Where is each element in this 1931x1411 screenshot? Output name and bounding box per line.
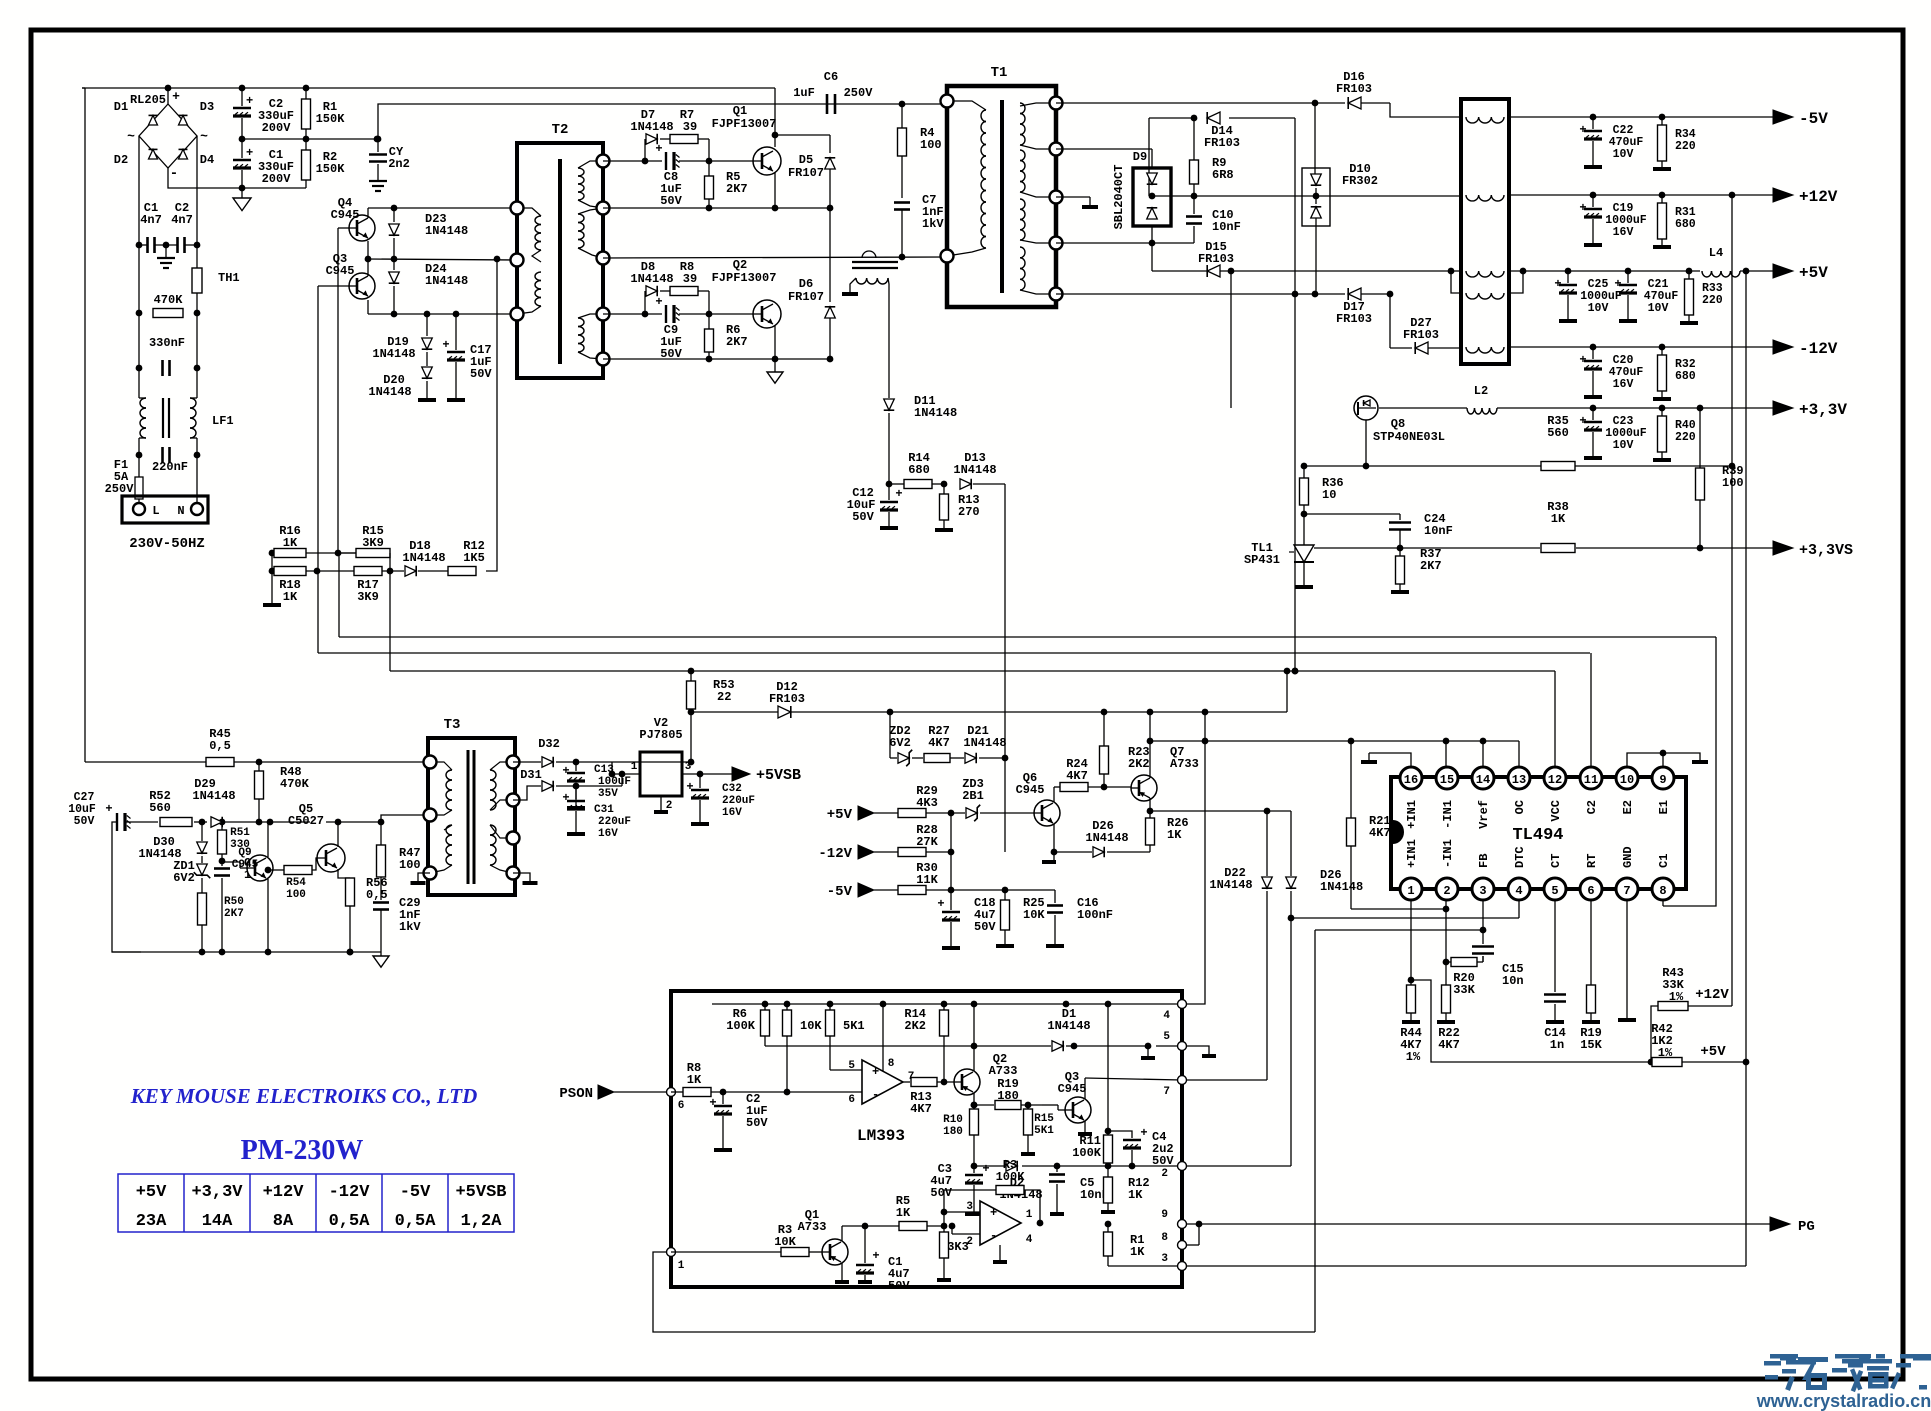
svg-text:10: 10 bbox=[1322, 488, 1336, 502]
svg-text:100K: 100K bbox=[1072, 1146, 1102, 1160]
resistor R20 33K bbox=[1446, 956, 1483, 997]
label 230V-50HZ bbox=[129, 536, 205, 552]
svg-text:4K7: 4K7 bbox=[1369, 826, 1391, 840]
wire pin16 ground bbox=[1361, 753, 1411, 767]
svg-text:11: 11 bbox=[1584, 773, 1598, 787]
svg-text:FR107: FR107 bbox=[788, 290, 824, 304]
wire y822 line bbox=[125, 815, 424, 825]
resistor R2 150K bbox=[302, 139, 346, 188]
svg-text:0,5: 0,5 bbox=[366, 888, 388, 902]
diode D15 FR103 bbox=[1198, 240, 1234, 277]
svg-text:FB: FB bbox=[1477, 854, 1491, 868]
svg-text:10V: 10V bbox=[1613, 439, 1634, 452]
svg-text:330nF: 330nF bbox=[149, 336, 185, 350]
ground below aux winding bbox=[842, 292, 858, 296]
diode D7 1N4148 bbox=[630, 108, 673, 161]
inductor output choke L1 bbox=[1461, 99, 1509, 364]
wire op1 plus input bbox=[830, 1069, 862, 1071]
svg-text:1kV: 1kV bbox=[922, 217, 944, 231]
svg-text:+5VSB: +5VSB bbox=[455, 1183, 506, 1202]
svg-text:50V: 50V bbox=[974, 920, 996, 934]
svg-text:C32: C32 bbox=[722, 783, 742, 795]
TL494 pin 10 bbox=[1616, 767, 1638, 789]
T1 pin3 ground stub bbox=[1056, 197, 1098, 207]
svg-text:4n7: 4n7 bbox=[140, 213, 162, 227]
wire x1152 SBL column bbox=[1149, 149, 1156, 271]
T1 pin left bottom bbox=[941, 250, 954, 263]
TL494 pin 3 bbox=[1472, 878, 1494, 900]
svg-text:+IN1: +IN1 bbox=[1405, 839, 1419, 868]
TL494 pin 13 bbox=[1508, 767, 1530, 789]
wire bus637 to pin8 bbox=[1663, 637, 1716, 906]
svg-text:11K: 11K bbox=[916, 873, 938, 887]
svg-text:D4: D4 bbox=[200, 153, 214, 167]
op-amp U1B LM393 bbox=[966, 1201, 1032, 1248]
wire Q7 emitter to y811 bbox=[1147, 798, 1154, 814]
wire Q3 collector to pin7 bbox=[1085, 1078, 1182, 1099]
svg-text:680: 680 bbox=[1675, 370, 1696, 383]
TL494 pin 15 bbox=[1436, 767, 1458, 789]
fuse F1 5A 250V bbox=[105, 458, 143, 499]
svg-text:Vref: Vref bbox=[1477, 800, 1491, 829]
svg-text:220: 220 bbox=[1702, 294, 1723, 307]
svg-text:VCC: VCC bbox=[1549, 800, 1563, 822]
resistor R54 100 bbox=[268, 858, 318, 901]
svg-text:4: 4 bbox=[1515, 884, 1522, 898]
resistor R29 4K3 bbox=[898, 784, 965, 818]
diode D20 1N4148 bbox=[368, 367, 432, 399]
svg-text:1%: 1% bbox=[1406, 1050, 1421, 1064]
svg-text:2K2: 2K2 bbox=[1128, 757, 1150, 771]
svg-text:Q9: Q9 bbox=[238, 847, 251, 859]
inductor L2 bbox=[1467, 384, 1497, 414]
TL494 pin 2 name -IN1 bbox=[1441, 839, 1455, 868]
resistor R33 220 bbox=[1680, 268, 1723, 323]
svg-text:KEY MOUSE ELECTROIKS CO., LTD: KEY MOUSE ELECTROIKS CO., LTD bbox=[130, 1084, 478, 1108]
bridge rectifier RL205 bbox=[127, 89, 208, 182]
svg-text:150K: 150K bbox=[316, 112, 346, 126]
wire C13 node to V2 input bbox=[609, 762, 640, 777]
resistor R10 180 bbox=[943, 1102, 978, 1170]
wire hop bbox=[862, 251, 876, 258]
resistor R11 100K bbox=[1072, 1004, 1112, 1166]
label +5V at R42 bbox=[1700, 1044, 1726, 1060]
svg-text:4: 4 bbox=[1163, 1010, 1170, 1022]
svg-text:16: 16 bbox=[1404, 773, 1418, 787]
capacitor C22 470uF 10V bbox=[1579, 114, 1643, 167]
svg-text:35V: 35V bbox=[598, 788, 618, 800]
capacitor C1 4n7 bbox=[139, 201, 162, 253]
TL494 pin 7 bbox=[1616, 878, 1638, 900]
wire FB to LM393 pin2 bbox=[1315, 930, 1483, 1332]
transistor Q1 FJPF13007 bbox=[712, 104, 781, 175]
capacitor C13 100uF 35V bbox=[562, 762, 631, 808]
svg-text:T1: T1 bbox=[991, 65, 1008, 81]
svg-text:50V: 50V bbox=[660, 194, 682, 208]
LM393 left pin 1 bbox=[667, 1248, 685, 1273]
svg-text:+: + bbox=[1579, 414, 1586, 428]
svg-text:560: 560 bbox=[149, 801, 171, 815]
svg-text:1N4148: 1N4148 bbox=[630, 120, 673, 134]
TL494 pin 8 name C1 bbox=[1657, 854, 1671, 868]
svg-text:D2: D2 bbox=[114, 153, 128, 167]
svg-text:L4: L4 bbox=[1709, 246, 1723, 260]
resistor R3 10K bbox=[671, 1223, 822, 1257]
svg-text:50V: 50V bbox=[470, 367, 492, 381]
transistor Q6 C945 bbox=[1016, 771, 1060, 826]
resistor R42 1K2 1% bbox=[1651, 1022, 1746, 1067]
wire op1 supply stub bbox=[880, 1001, 887, 1071]
capacitor C8 1uF 50V bbox=[655, 142, 682, 208]
resistor R56 0,5 bbox=[346, 876, 388, 955]
T1 pin right 2 bbox=[1050, 143, 1063, 156]
wire pin2 to D26 bbox=[1187, 1165, 1291, 1167]
svg-text:6V2: 6V2 bbox=[889, 736, 911, 750]
wire aux to D11 bbox=[888, 300, 890, 398]
wire bridge minus to bottom rail bbox=[168, 168, 306, 191]
svg-text:1N4148: 1N4148 bbox=[192, 789, 235, 803]
svg-text:A733: A733 bbox=[989, 1064, 1018, 1078]
svg-text:16V: 16V bbox=[1613, 378, 1634, 391]
T2 pin right 2 bbox=[597, 202, 610, 215]
svg-text:680: 680 bbox=[1675, 218, 1696, 231]
capacitor C3 4u7 50V bbox=[930, 1162, 989, 1214]
resistor R15 5K1 bbox=[1021, 1105, 1054, 1154]
wire Q3 base bbox=[318, 286, 349, 571]
resistor R5 1K bbox=[842, 1194, 947, 1231]
resistor R9 6R8 bbox=[1190, 115, 1234, 196]
resistor R14 680 bbox=[889, 451, 944, 489]
diode D4 label bbox=[200, 153, 214, 167]
svg-text:220: 220 bbox=[1675, 431, 1696, 444]
resistor R51 330 bbox=[218, 822, 251, 864]
diode D13 1N4148 bbox=[953, 451, 1005, 489]
wire y909 R21 to pin2 bbox=[1351, 906, 1449, 913]
wire Q6 collector to R24 bbox=[1054, 787, 1060, 802]
diode D14 FR103 bbox=[1204, 112, 1240, 150]
inductor L4 bbox=[1702, 246, 1740, 277]
svg-text:RL205: RL205 bbox=[130, 93, 166, 107]
wire ZD2 row y758 bbox=[890, 712, 897, 758]
wire Q1 base line y161 bbox=[603, 158, 753, 165]
wire R1 to pin3 row bbox=[1108, 1265, 1182, 1267]
svg-text:+: + bbox=[982, 1162, 989, 1176]
svg-text:2: 2 bbox=[1443, 884, 1450, 898]
T3 pin left 1 bbox=[424, 756, 437, 769]
svg-text:230V-50HZ: 230V-50HZ bbox=[129, 536, 205, 552]
wire +12V rail bbox=[1509, 192, 1773, 199]
wire R15 right to y571 bbox=[389, 553, 391, 571]
LM393 pin 9 bbox=[1161, 1209, 1186, 1229]
TL494 pin 14 bbox=[1472, 767, 1494, 789]
capacitor C32 220uF 16V bbox=[686, 774, 755, 824]
svg-text:1N4148: 1N4148 bbox=[1209, 878, 1252, 892]
LM393 pin 5 bbox=[1163, 1031, 1186, 1051]
ground below C1 bbox=[233, 188, 251, 211]
svg-text:1K: 1K bbox=[1167, 828, 1182, 842]
svg-text:50V: 50V bbox=[1152, 1154, 1174, 1168]
resistor R12 1K5 bbox=[448, 539, 485, 576]
resistor 10K bbox=[783, 1004, 823, 1092]
svg-text:6V2: 6V2 bbox=[173, 871, 195, 885]
T3 pin right 4 bbox=[507, 867, 520, 880]
wire R5 node to op2 bbox=[943, 1212, 945, 1226]
zener ZD2 6V2 bbox=[889, 724, 923, 766]
svg-text:16V: 16V bbox=[598, 828, 618, 840]
capacitor C6 bbox=[793, 70, 873, 114]
svg-text:180: 180 bbox=[997, 1089, 1019, 1103]
svg-text:C945: C945 bbox=[1016, 783, 1045, 797]
T1 pin right 5 bbox=[1050, 288, 1063, 301]
svg-text:220nF: 220nF bbox=[152, 460, 188, 474]
svg-text:+: + bbox=[686, 780, 693, 794]
TL494 pin 10 name E2 bbox=[1621, 800, 1635, 814]
svg-text:33K: 33K bbox=[1453, 983, 1475, 997]
diode D1 label bbox=[114, 100, 128, 114]
T2 pin right 4 bbox=[597, 308, 610, 321]
wire Q1 collector to D5 bbox=[775, 134, 830, 136]
resistor R1 1K bbox=[1104, 1221, 1146, 1266]
wire mid rail C1-C2 junction bbox=[239, 136, 381, 143]
wire y811 row bbox=[1150, 808, 1291, 815]
diode D26 1N4148 (right) bbox=[1286, 811, 1363, 1166]
TL494 pin 3 name FB bbox=[1477, 854, 1491, 868]
svg-text:50V: 50V bbox=[930, 1186, 952, 1200]
wire y762 to T3 bbox=[85, 759, 424, 766]
svg-text:10K: 10K bbox=[774, 1235, 796, 1249]
TL494 pin 9 name E1 bbox=[1657, 800, 1671, 814]
svg-text:16V: 16V bbox=[1613, 226, 1634, 239]
ground below R37 bbox=[1391, 590, 1409, 594]
wire Q2 base line y314 bbox=[603, 311, 753, 318]
capacitor C16 100nF bbox=[1046, 890, 1113, 946]
TL494 pin 12 name VCC bbox=[1549, 800, 1563, 822]
wire bus y671 bbox=[390, 571, 1555, 674]
resistor R3 100K feedback bbox=[944, 1158, 1043, 1226]
svg-text:1kV: 1kV bbox=[399, 920, 421, 934]
svg-text:3K9: 3K9 bbox=[362, 536, 384, 550]
svg-text:7: 7 bbox=[1163, 1086, 1170, 1098]
transformer T2 bbox=[517, 122, 603, 378]
wire C24 branch bbox=[1304, 514, 1400, 520]
svg-text:+5V: +5V bbox=[827, 807, 853, 823]
wire R35 line y466 bbox=[1301, 420, 1736, 469]
diode D8 1N4148 bbox=[630, 260, 673, 314]
wire pin1 to +5V divider bbox=[1411, 980, 1654, 1065]
svg-text:2: 2 bbox=[1161, 1168, 1168, 1180]
svg-text:200V: 200V bbox=[262, 172, 292, 186]
shunt regulator TL1 SP431 bbox=[1244, 541, 1314, 585]
svg-text:FR302: FR302 bbox=[1342, 174, 1378, 188]
resistor R14 2K2 bbox=[904, 1004, 948, 1082]
wire pin3 to +5V feed bbox=[1187, 1265, 1746, 1267]
svg-text:3: 3 bbox=[1161, 1253, 1168, 1265]
svg-text:C31: C31 bbox=[594, 804, 614, 816]
resistor 5K1 bbox=[826, 1004, 865, 1070]
svg-text:+: + bbox=[655, 142, 662, 156]
capacitor C31 220uF 16V bbox=[562, 786, 631, 840]
capacitor C4 2u2 50V bbox=[1108, 1126, 1174, 1168]
T3 right ground bbox=[513, 873, 538, 883]
svg-text:100K: 100K bbox=[996, 1170, 1026, 1184]
wire -12V rail bbox=[1509, 346, 1773, 348]
svg-text:100nF: 100nF bbox=[1077, 908, 1113, 922]
output arrow -12V bbox=[1773, 340, 1838, 358]
output arrow +5V bbox=[1773, 264, 1828, 282]
svg-text:1N4148: 1N4148 bbox=[402, 551, 445, 565]
diode D1 1N4148 bbox=[765, 1007, 1091, 1051]
svg-text:10K: 10K bbox=[800, 1019, 822, 1033]
diode D17 FR103 bbox=[1336, 288, 1390, 326]
resistor R31 680 bbox=[1653, 192, 1696, 247]
svg-text:OC: OC bbox=[1513, 800, 1527, 814]
resistor R5 2K7 bbox=[705, 161, 748, 208]
svg-text:1uF: 1uF bbox=[793, 86, 815, 100]
capacitor C21 470uF 10V bbox=[1614, 268, 1678, 321]
svg-text:0,5A: 0,5A bbox=[329, 1212, 371, 1231]
transistor Q2 A733 bbox=[954, 1052, 1017, 1095]
svg-text:C6: C6 bbox=[824, 70, 838, 84]
resistor R36 10 bbox=[1300, 466, 1344, 545]
capacitor C17 1uF 50V bbox=[442, 314, 492, 398]
wire +5V rail bbox=[1509, 268, 1773, 275]
svg-text:A733: A733 bbox=[1170, 757, 1199, 771]
svg-text:1K: 1K bbox=[1130, 1245, 1145, 1259]
TL494 pin 6 bbox=[1580, 878, 1602, 900]
resistor R19 15K bbox=[1580, 900, 1602, 1052]
wire pin8 join pin9 bbox=[1187, 1224, 1199, 1245]
wire R12 to T2 feedback bbox=[486, 256, 500, 571]
diode D6 FR107 bbox=[788, 208, 835, 359]
svg-text:D6: D6 bbox=[799, 277, 813, 291]
transistor Q5 C5027 bbox=[288, 802, 345, 872]
capacitor C27 10uF 50V bbox=[68, 791, 130, 831]
capacitor C7 1nF 1kV bbox=[894, 193, 944, 257]
thermistor TH1 bbox=[192, 268, 240, 293]
T1 pin left top bbox=[941, 95, 954, 108]
TL494 pin 5 bbox=[1544, 878, 1566, 900]
IC LM393 comparator box bbox=[671, 991, 1182, 1287]
LM393 pin 7 bbox=[1163, 1076, 1186, 1099]
wire pins 9 10 ground bbox=[1627, 750, 1708, 767]
svg-text:+: + bbox=[872, 1065, 879, 1079]
wire Q5 leads bbox=[338, 822, 350, 878]
wire op2 minus input bbox=[949, 1223, 980, 1234]
wire x951 sense join bbox=[948, 813, 955, 890]
capacitor C28 10nF bbox=[214, 856, 273, 952]
aux winding near T1 bbox=[850, 262, 898, 300]
svg-text:14: 14 bbox=[1476, 773, 1490, 787]
capacitor C15 10n bbox=[1472, 930, 1524, 988]
T3 pin right 2 bbox=[507, 794, 520, 807]
svg-text:-12V: -12V bbox=[818, 846, 852, 862]
svg-text:4K7: 4K7 bbox=[910, 1102, 932, 1116]
LM393 pin 3 bbox=[1161, 1253, 1186, 1271]
svg-text:CT: CT bbox=[1549, 854, 1563, 868]
resistor R38 1K bbox=[1541, 500, 1575, 553]
wire C27 left down bbox=[112, 822, 141, 952]
svg-text:39: 39 bbox=[683, 272, 697, 286]
wire x85 primary feed bbox=[82, 88, 85, 762]
svg-text:+: + bbox=[442, 338, 449, 352]
wire +5V winding pair jog bbox=[1509, 268, 1526, 293]
svg-text:7: 7 bbox=[1623, 884, 1630, 898]
svg-text:2B1: 2B1 bbox=[962, 789, 984, 803]
TL494 pin 13 name OC bbox=[1513, 800, 1527, 814]
capacitor C1 330uF 200V bbox=[233, 139, 294, 188]
capacitor C20 470uF 16V bbox=[1579, 344, 1643, 397]
svg-text:270: 270 bbox=[958, 505, 980, 519]
wire pin1 column bbox=[1408, 900, 1415, 985]
svg-text:R10: R10 bbox=[943, 1114, 963, 1126]
svg-text:1N4148: 1N4148 bbox=[1085, 831, 1128, 845]
svg-text:-: - bbox=[170, 166, 178, 182]
wire top bus y1004 bbox=[712, 1001, 1182, 1008]
wire R53 column to T3 line bbox=[688, 712, 695, 765]
wire y359 bottom line bbox=[603, 356, 833, 363]
svg-text:D1: D1 bbox=[114, 100, 128, 114]
svg-text:23A: 23A bbox=[136, 1212, 167, 1231]
svg-text:6: 6 bbox=[1587, 884, 1594, 898]
svg-text:4K7: 4K7 bbox=[1066, 769, 1088, 783]
diode D27 FR103 bbox=[1390, 294, 1461, 354]
svg-text:FR103: FR103 bbox=[1336, 82, 1372, 96]
svg-text:STP40NE03L: STP40NE03L bbox=[1373, 430, 1445, 444]
resistor R27 4K7 bbox=[924, 724, 964, 763]
svg-text:1N4148: 1N4148 bbox=[425, 224, 468, 238]
svg-text:-12V: -12V bbox=[329, 1183, 371, 1202]
svg-text:+: + bbox=[709, 1096, 716, 1110]
capacitor C12 10uF 50V bbox=[847, 481, 903, 527]
LM393 pin 8 bbox=[1161, 1232, 1186, 1250]
resistor R43 33K 1% bbox=[1658, 966, 1732, 1011]
T3 pin right 3 bbox=[507, 832, 520, 845]
resistor R28 27K bbox=[898, 823, 951, 857]
wire Q4 base bbox=[338, 228, 349, 553]
resistor R53 22 bbox=[687, 671, 735, 712]
T2 pin right 3 bbox=[597, 252, 610, 265]
capacitor C2 1uF 50V bbox=[709, 1092, 768, 1150]
svg-text:-: - bbox=[872, 1088, 879, 1102]
svg-text:+5VSB: +5VSB bbox=[756, 767, 801, 784]
wire y243 from T1 pin4 bbox=[1056, 242, 1194, 244]
wire y149 from T1 pin2 bbox=[1056, 148, 1152, 150]
resistor R18 1K bbox=[274, 567, 306, 605]
svg-text:C5027: C5027 bbox=[288, 814, 324, 828]
diode D22 1N4148 bbox=[1209, 811, 1272, 1080]
wire y271 +5V rect node bbox=[1152, 268, 1461, 293]
wire pin2 row y1166 bbox=[974, 1163, 1182, 1170]
diode D23 1N4148 bbox=[389, 208, 468, 259]
svg-text:FR103: FR103 bbox=[1198, 252, 1234, 266]
TL494 pin 16 bbox=[1400, 767, 1422, 789]
svg-text:FR103: FR103 bbox=[769, 692, 805, 706]
resistor R35 560 bbox=[1541, 414, 1575, 471]
resistor R50 2K7 bbox=[198, 893, 244, 952]
svg-text:1%: 1% bbox=[1658, 1046, 1673, 1060]
wire Q9 leads bbox=[265, 822, 272, 955]
TL494 pin 9 bbox=[1652, 767, 1674, 789]
wire C6 drive line y104 bbox=[375, 101, 947, 143]
svg-text:50V: 50V bbox=[888, 1279, 910, 1293]
resistor R13 270 bbox=[940, 481, 980, 528]
ground below CY bbox=[369, 181, 387, 191]
wire pin9 PG line bbox=[1187, 1221, 1770, 1228]
transistor Q4 C945 bbox=[331, 196, 375, 241]
svg-text:D32: D32 bbox=[538, 737, 560, 751]
svg-text:FJPF13007: FJPF13007 bbox=[712, 117, 777, 131]
svg-text:PSON: PSON bbox=[559, 1086, 593, 1102]
